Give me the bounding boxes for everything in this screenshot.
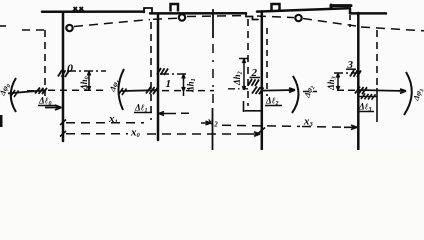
svg-text:1: 1 — [166, 78, 172, 90]
dashed shaft axis 2-3 — [303, 19, 356, 27]
underline delta-l2 — [265, 105, 282, 107]
underline delta-l0 — [38, 105, 56, 107]
extension tick delta-l2 — [243, 101, 245, 112]
hatch arrowhead at column 3 — [355, 87, 367, 95]
dashed vertical at bearing 0 — [44, 30, 46, 96]
hatch where arrow crosses arc 0 — [11, 90, 19, 97]
left dashed connector to bearing 0 — [22, 29, 45, 31]
ref tick line bearing 1 — [160, 73, 186, 75]
hatch arrowhead at column 1 — [146, 87, 158, 95]
pedestal square over bearing 2 — [272, 4, 280, 11]
journal circle bearing 2 — [295, 15, 301, 21]
top chord segment 2-3 — [257, 8, 348, 11]
dashed shaft axis approach 1 — [153, 18, 177, 19]
dashed vertical at bearing 2 right — [266, 28, 268, 96]
arrowhead x0 — [246, 132, 260, 136]
dashed shaft axis 1-2 — [187, 16, 245, 17]
arrowhead x3 — [344, 125, 357, 129]
dim line delta-h2 — [242, 59, 245, 90]
dashed shaft axis approach 2 — [257, 16, 294, 18]
underline of 3 — [346, 68, 356, 70]
dim line x2-x3 dashed — [222, 125, 300, 126]
arc delta-phi2 — [292, 76, 299, 113]
dash-dot datum left of bearing 2 — [228, 88, 248, 90]
short dashed tick below step 3 — [349, 15, 351, 27]
column bearing 3 — [357, 13, 360, 150]
dashed datum right of arc phi2 — [303, 91, 317, 93]
journal circle bearing 1 — [179, 14, 185, 20]
top chord right end — [350, 12, 386, 15]
arrow from arc phi1 — [121, 89, 157, 92]
midspan marker vertical dashed middle — [212, 44, 214, 108]
dim line x3 dashed — [302, 126, 344, 129]
arrow from column 3 to arc phi3 — [358, 89, 406, 93]
dim line x1 — [66, 122, 144, 124]
midspan marker vertical top solid — [212, 9, 214, 38]
top chord segment 1-2 — [150, 12, 246, 15]
top chord segment 0-1 — [42, 10, 144, 13]
arrowhead x1 — [201, 121, 211, 125]
underline of 2 — [250, 77, 261, 79]
dashed vertical at bearing 2 left — [247, 19, 249, 106]
dashed vertical at bearing 3 — [376, 30, 378, 88]
dim line delta-l2 — [245, 110, 262, 112]
arrow from column 2 to arc phi2 — [262, 88, 295, 92]
ref tick for delta-h2 — [239, 58, 248, 60]
ref tick line bearing 0 — [67, 70, 106, 72]
tick at column 0 for x1 — [60, 120, 66, 126]
step down at joint 3 — [349, 8, 352, 13]
hatch arrowhead at dashed vertical 0 — [35, 88, 47, 95]
pedestal square over bearing 1 — [171, 4, 179, 12]
column bearing 2 — [261, 12, 264, 151]
arc delta-phi0 — [11, 78, 16, 112]
hatch arrowhead at column 2 — [252, 87, 264, 95]
arc delta-phi3 — [404, 72, 412, 115]
dashed vertical bearing 3 lower solid part — [376, 88, 378, 122]
arc delta-phi1 — [118, 69, 124, 110]
dashed shaft axis 0-1 — [74, 20, 150, 27]
staircase step at joint 2 — [246, 13, 258, 19]
datum dashed line bearing 1 right — [162, 90, 214, 92]
hatch where arrow crosses arc 1 — [119, 88, 127, 95]
hatch under label 3 — [350, 70, 361, 77]
column bearing 1 — [157, 14, 160, 141]
dim line delta-h0 — [87, 72, 90, 91]
dim line delta-h3 — [336, 74, 339, 91]
dim line delta-h1 — [182, 75, 185, 97]
datum dashed line bearing 0 — [27, 89, 107, 92]
dim arrows delta-l1 — [159, 112, 189, 116]
hatch under label 0 — [58, 70, 69, 77]
raised notch bar near bearing 3 — [331, 5, 351, 8]
dim arrows delta-l0 — [45, 105, 62, 110]
extension vertical at x2 start — [212, 108, 214, 150]
dim line x0 left — [66, 133, 128, 135]
tick on column 2 for x0 anchor — [258, 128, 265, 134]
journal circle bearing 0 — [66, 25, 72, 31]
column bearing 0 — [62, 12, 65, 141]
tick at column 0 for x0 — [60, 131, 66, 137]
hatch under label 1 — [157, 68, 168, 75]
underline delta-l3 — [358, 111, 375, 113]
hatched dim line delta-l3 — [358, 94, 377, 100]
dim line x0 right — [147, 133, 246, 135]
arrow from arc phi0 — [8, 90, 46, 93]
pedestal hatch xx over bearing 0 — [73, 7, 84, 11]
hatch under label 2 — [248, 79, 259, 86]
dashed datum left of column 3 — [337, 89, 356, 91]
dashed vertical at bearing 1 — [150, 22, 152, 120]
scan smudge at left edge — [0, 115, 3, 127]
notch at joint 1 — [144, 8, 152, 14]
dashed shaft axis right of 3 — [361, 27, 424, 31]
underline delta-l1 — [134, 112, 152, 114]
left edge dash — [0, 25, 6, 27]
ref tick line bearing 3 — [334, 72, 357, 74]
